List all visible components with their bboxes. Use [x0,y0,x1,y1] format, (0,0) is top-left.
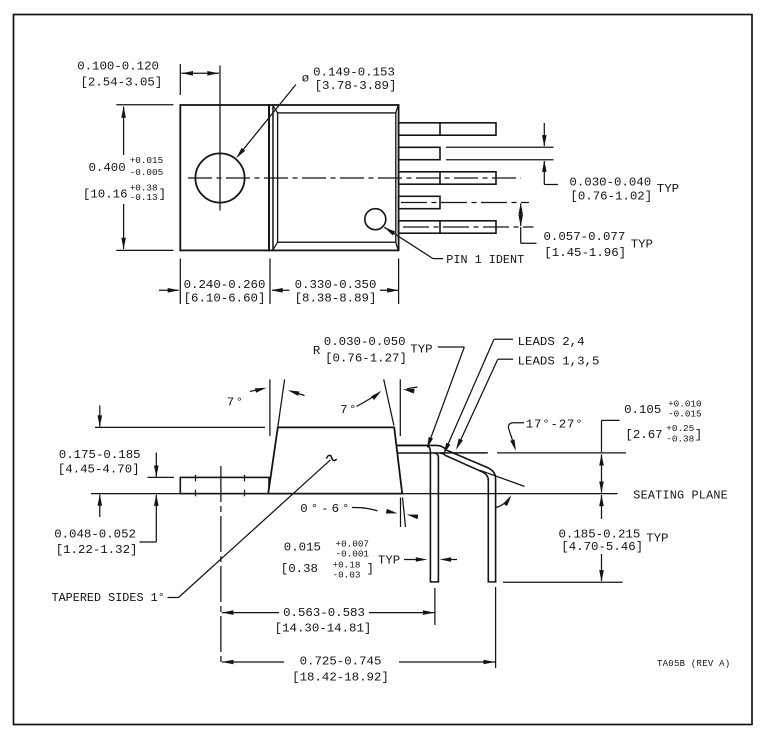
lead 2 centerline [401,202,529,204]
dim 0.030-0.040 arrows [542,123,558,185]
svg-text:LEADS 2,4: LEADS 2,4 [518,335,585,349]
svg-text:[1.45-1.96]: [1.45-1.96] [544,246,626,260]
dim 0.400 dimension line with arrows [121,106,126,249]
dim text [1.45-1.96] [544,246,626,260]
0-6deg leader arrow right [352,507,398,513]
dim text TYP c [410,342,432,356]
7deg left vertical reference line [269,379,271,436]
svg-text:[2.67: [2.67 [625,428,662,442]
tab (side view) [180,477,269,493]
dim text 0.175-0.185 [59,448,141,462]
svg-text:0.105: 0.105 [624,403,661,417]
svg-text:0.149-0.153: 0.149-0.153 [313,65,395,79]
lead bottom edge reference over bend [440,452,488,454]
dim text TYP a [657,182,679,196]
label PIN 1 IDENT [446,253,524,267]
lead 1 (long, with tick) [399,221,496,233]
0-6deg reference lines below body [401,498,406,528]
dim text dia symbol [302,71,309,85]
17-27 deg angle arc arrow [496,495,512,508]
svg-text:-0.015: -0.015 [668,409,701,420]
dim text [1.22-1.32] [56,543,138,557]
hidden hole edge dashes left [195,475,197,497]
extension line body right below [398,259,400,305]
label 0-6 deg [300,502,352,516]
dim text bracket close 3 [367,562,374,576]
molded body outline (side view) [268,427,402,493]
dim text [6.10-6.60] [184,292,266,306]
dim text 0.400 [89,161,126,175]
lead tip extension line [503,581,623,583]
label R [313,344,321,358]
dim tol +0.010/-0.015 [668,398,701,419]
svg-text:0.030-0.040: 0.030-0.040 [569,175,651,189]
svg-text:7°: 7° [340,403,358,417]
dim text 0.105 [624,403,661,417]
lead 5 (long, with tick) [399,123,496,135]
dim 0.048-0.052 top arrow [154,453,159,478]
svg-text:0°-6°: 0°-6° [300,502,352,516]
svg-text:0.048-0.052: 0.048-0.052 [54,527,136,541]
svg-text:TYP: TYP [378,554,400,568]
7deg right curved leader arrow [357,391,382,407]
7deg left label [227,396,245,410]
svg-text:TA05B (REV A): TA05B (REV A) [657,659,730,669]
svg-text:-0.001: -0.001 [336,549,370,560]
svg-text:TYP: TYP [657,182,679,196]
svg-text:-0.13: -0.13 [130,192,158,203]
tab top extension tick [148,476,175,478]
drawing number TA05B (REV A) [657,659,730,669]
svg-text:TYP: TYP [631,238,653,252]
dim text [2.54-3.05] [81,75,163,89]
dim 0.100-0.120 extension line (tab left edge above) [179,64,181,95]
svg-text:[10.16: [10.16 [83,188,128,202]
tapered sides squiggle [327,455,337,460]
dim text 0.057-0.077 [544,230,626,244]
pin 1 ident leader [384,227,443,258]
svg-text:+0.25: +0.25 [666,423,694,434]
svg-text:0.330-0.350: 0.330-0.350 [295,278,377,292]
leads 2,4 side profile (near bend) [396,445,439,582]
dim text [4.45-4.70] [58,463,140,477]
lead 3 (long, with tick) [399,172,496,184]
svg-text:[18.42-18.92]: [18.42-18.92] [292,670,389,684]
svg-text:[3.78-3.89]: [3.78-3.89] [315,79,397,93]
lead 2,4 center extension below [434,588,436,625]
dim text [0.76-1.02] [570,189,652,203]
dim text [14.30-14.81] [275,621,372,635]
dim text 0.030-0.040 [569,175,651,189]
dim 0.725-0.745 line and arrows [222,660,495,665]
dim text 0.149-0.153 [313,65,395,79]
dim 0.015 arrows [404,557,457,562]
7deg right arrow to vertical [403,387,418,394]
dim text bracket close 2 [695,428,702,442]
0-6deg arrow left [407,515,419,520]
body inner bevel rectangle [278,113,396,242]
svg-text:[2.54-3.05]: [2.54-3.05] [81,75,163,89]
seating plane line [91,493,618,495]
body bevel chamfer bottom-right [396,242,398,250]
dim 0.100-0.120 dimension line with arrows [181,71,219,76]
dim text 0.048-0.052 [54,527,136,541]
lead slant extension line [480,470,525,486]
dim 0.330 outside arrow right [380,288,399,293]
dim text [8.38-8.89] [295,292,377,306]
mounting hole [195,153,244,202]
label TAPERED SIDES 1 deg [52,591,165,605]
7deg left side extension line [278,379,285,426]
svg-text:R: R [313,344,321,358]
label SEATING PLANE [633,488,728,502]
body bevel chamfer top-left [273,106,278,113]
svg-text:[0.38: [0.38 [281,562,318,576]
svg-text:0.240-0.260: 0.240-0.260 [184,278,266,292]
svg-text:ø: ø [302,71,309,85]
svg-text:[0.76-1.27]: [0.76-1.27] [325,351,407,365]
svg-text:0.563-0.583: 0.563-0.583 [283,606,365,620]
svg-text:0.057-0.077: 0.057-0.077 [544,230,626,244]
dim text 0.015 [284,541,321,555]
extension line tab/body below [269,259,271,305]
svg-text:[1.22-1.32]: [1.22-1.32] [56,543,138,557]
dim tol +0.18/-0.03 [333,559,361,580]
dim text 0.725-0.745 [300,655,382,669]
extension line tab left below [179,259,181,305]
dim 0.048-0.052 bottom arrow [140,494,159,542]
dim 0.185-0.215 arrows [599,495,604,582]
dim 0.563-0.583 line and arrows [222,610,435,615]
body left double line [272,105,274,250]
svg-text:TYP: TYP [410,342,432,356]
dim text TYP b [631,238,653,252]
dim 0.175-0.185 bottom arrow [98,494,103,517]
dim text closing bracket [159,188,166,202]
dim text 0.330-0.350 [295,278,377,292]
hole diameter leader arrow [236,85,296,159]
svg-text:7°: 7° [227,396,245,410]
svg-text:0.400: 0.400 [89,161,126,175]
dim tol +0.007/-0.001 [336,538,370,559]
dim text TYP e [378,554,400,568]
molded body outline (top view) [269,105,399,250]
7deg left arrow to slant [288,390,305,396]
svg-text:[8.38-8.89]: [8.38-8.89] [295,292,377,306]
label LEADS 1,3,5 with leader [456,354,599,450]
hole vertical centerline [219,66,221,211]
svg-text:0.030-0.050: 0.030-0.050 [324,335,406,349]
svg-text:TAPERED SIDES 1°: TAPERED SIDES 1° [52,591,165,605]
body bevel chamfer top-right [396,106,398,113]
7deg right label [340,403,358,417]
svg-text:-0.38: -0.38 [666,434,694,445]
dim text 0.185-0.215 [559,527,641,541]
dim text [4.70-5.46] [561,540,643,554]
svg-text:17°-27°: 17°-27° [526,417,584,431]
17-27 deg leader arrow [508,423,524,451]
svg-text:TYP: TYP [646,531,668,545]
dim text 0.240-0.260 [184,278,266,292]
svg-text:0.100-0.120: 0.100-0.120 [77,60,159,74]
pin 1 ident dimple [365,209,386,230]
leads 1,3,5 side profile (17-27 deg bend) [396,445,496,582]
tapered sides leader line [168,460,331,598]
dim tol +0.25/-0.38 [666,423,694,445]
dim text [3.78-3.89] [315,79,397,93]
lead 1,3,5 center extension below [495,587,497,668]
dim 0.175-0.185 top arrow [98,406,103,427]
dim text [0.76-1.27] [325,351,407,365]
dim 0.105 arrows [599,454,604,493]
7deg right side extension line [384,379,394,425]
svg-text:]: ] [367,562,374,576]
svg-text:LEADS 1,3,5: LEADS 1,3,5 [518,354,600,368]
dim 0.400 top extension line [116,104,173,106]
label LEADS 2,4 with leader [444,335,585,454]
label 17-27 deg [526,417,584,431]
tab (top view) with mounting hole region [180,105,269,250]
svg-text:[6.10-6.60]: [6.10-6.60] [184,292,266,306]
svg-text:[4.45-4.70]: [4.45-4.70] [58,463,140,477]
dim text [18.42-18.92] [292,670,389,684]
dim text [2.67 [625,428,662,442]
7deg left arrow to vertical [250,388,267,393]
dim text [10.16 [83,188,128,202]
dim 0.240 outside arrow left [159,288,179,293]
dim tol +0.015/-0.005 [130,155,163,178]
svg-text:[4.70-5.46]: [4.70-5.46] [561,540,643,554]
hidden hole edge dashes right [244,475,246,497]
svg-text:0.725-0.745: 0.725-0.745 [300,655,382,669]
svg-text:[0.76-1.02]: [0.76-1.02] [570,189,652,203]
dim 0.400 bottom extension line [116,249,173,251]
lead 2 (short) [399,196,440,208]
bend radius leader [427,347,464,449]
lead 1 centerline [403,226,534,228]
svg-text:[14.30-14.81]: [14.30-14.81] [275,621,372,635]
dim text TYP d [646,531,668,545]
dim text 0.563-0.583 [283,606,365,620]
dim 0.057-0.077 arrows [518,203,536,243]
svg-text:0.175-0.185: 0.175-0.185 [59,448,141,462]
svg-text:PIN 1 IDENT: PIN 1 IDENT [446,253,524,267]
lead top reference line right [497,452,626,454]
package horizontal centerline (through lead 3) [188,177,521,179]
svg-text:+0.015: +0.015 [130,155,163,166]
dim arrow between spans [271,288,289,293]
body bevel chamfer bottom-left [273,242,278,250]
hole centerline extension (side view) [220,466,222,663]
svg-text:0.015: 0.015 [284,541,321,555]
7deg right vertical reference line [399,379,401,436]
svg-text:]: ] [695,428,702,442]
lead 4 width extension lines [446,147,554,159]
dim text [0.38 [281,562,318,576]
dim text 0.030-0.050 [324,335,406,349]
dim tol +0.38/-0.13 [130,183,158,203]
svg-text:SEATING PLANE: SEATING PLANE [633,488,728,502]
lead 4 (short) [399,147,440,159]
dim 0.105 bracket elbow [602,420,620,452]
svg-text:-0.03: -0.03 [333,570,361,581]
body top extension line [95,426,265,428]
svg-text:-0.005: -0.005 [130,167,163,178]
dim text 0.100-0.120 [77,60,159,74]
svg-text:]: ] [159,188,166,202]
